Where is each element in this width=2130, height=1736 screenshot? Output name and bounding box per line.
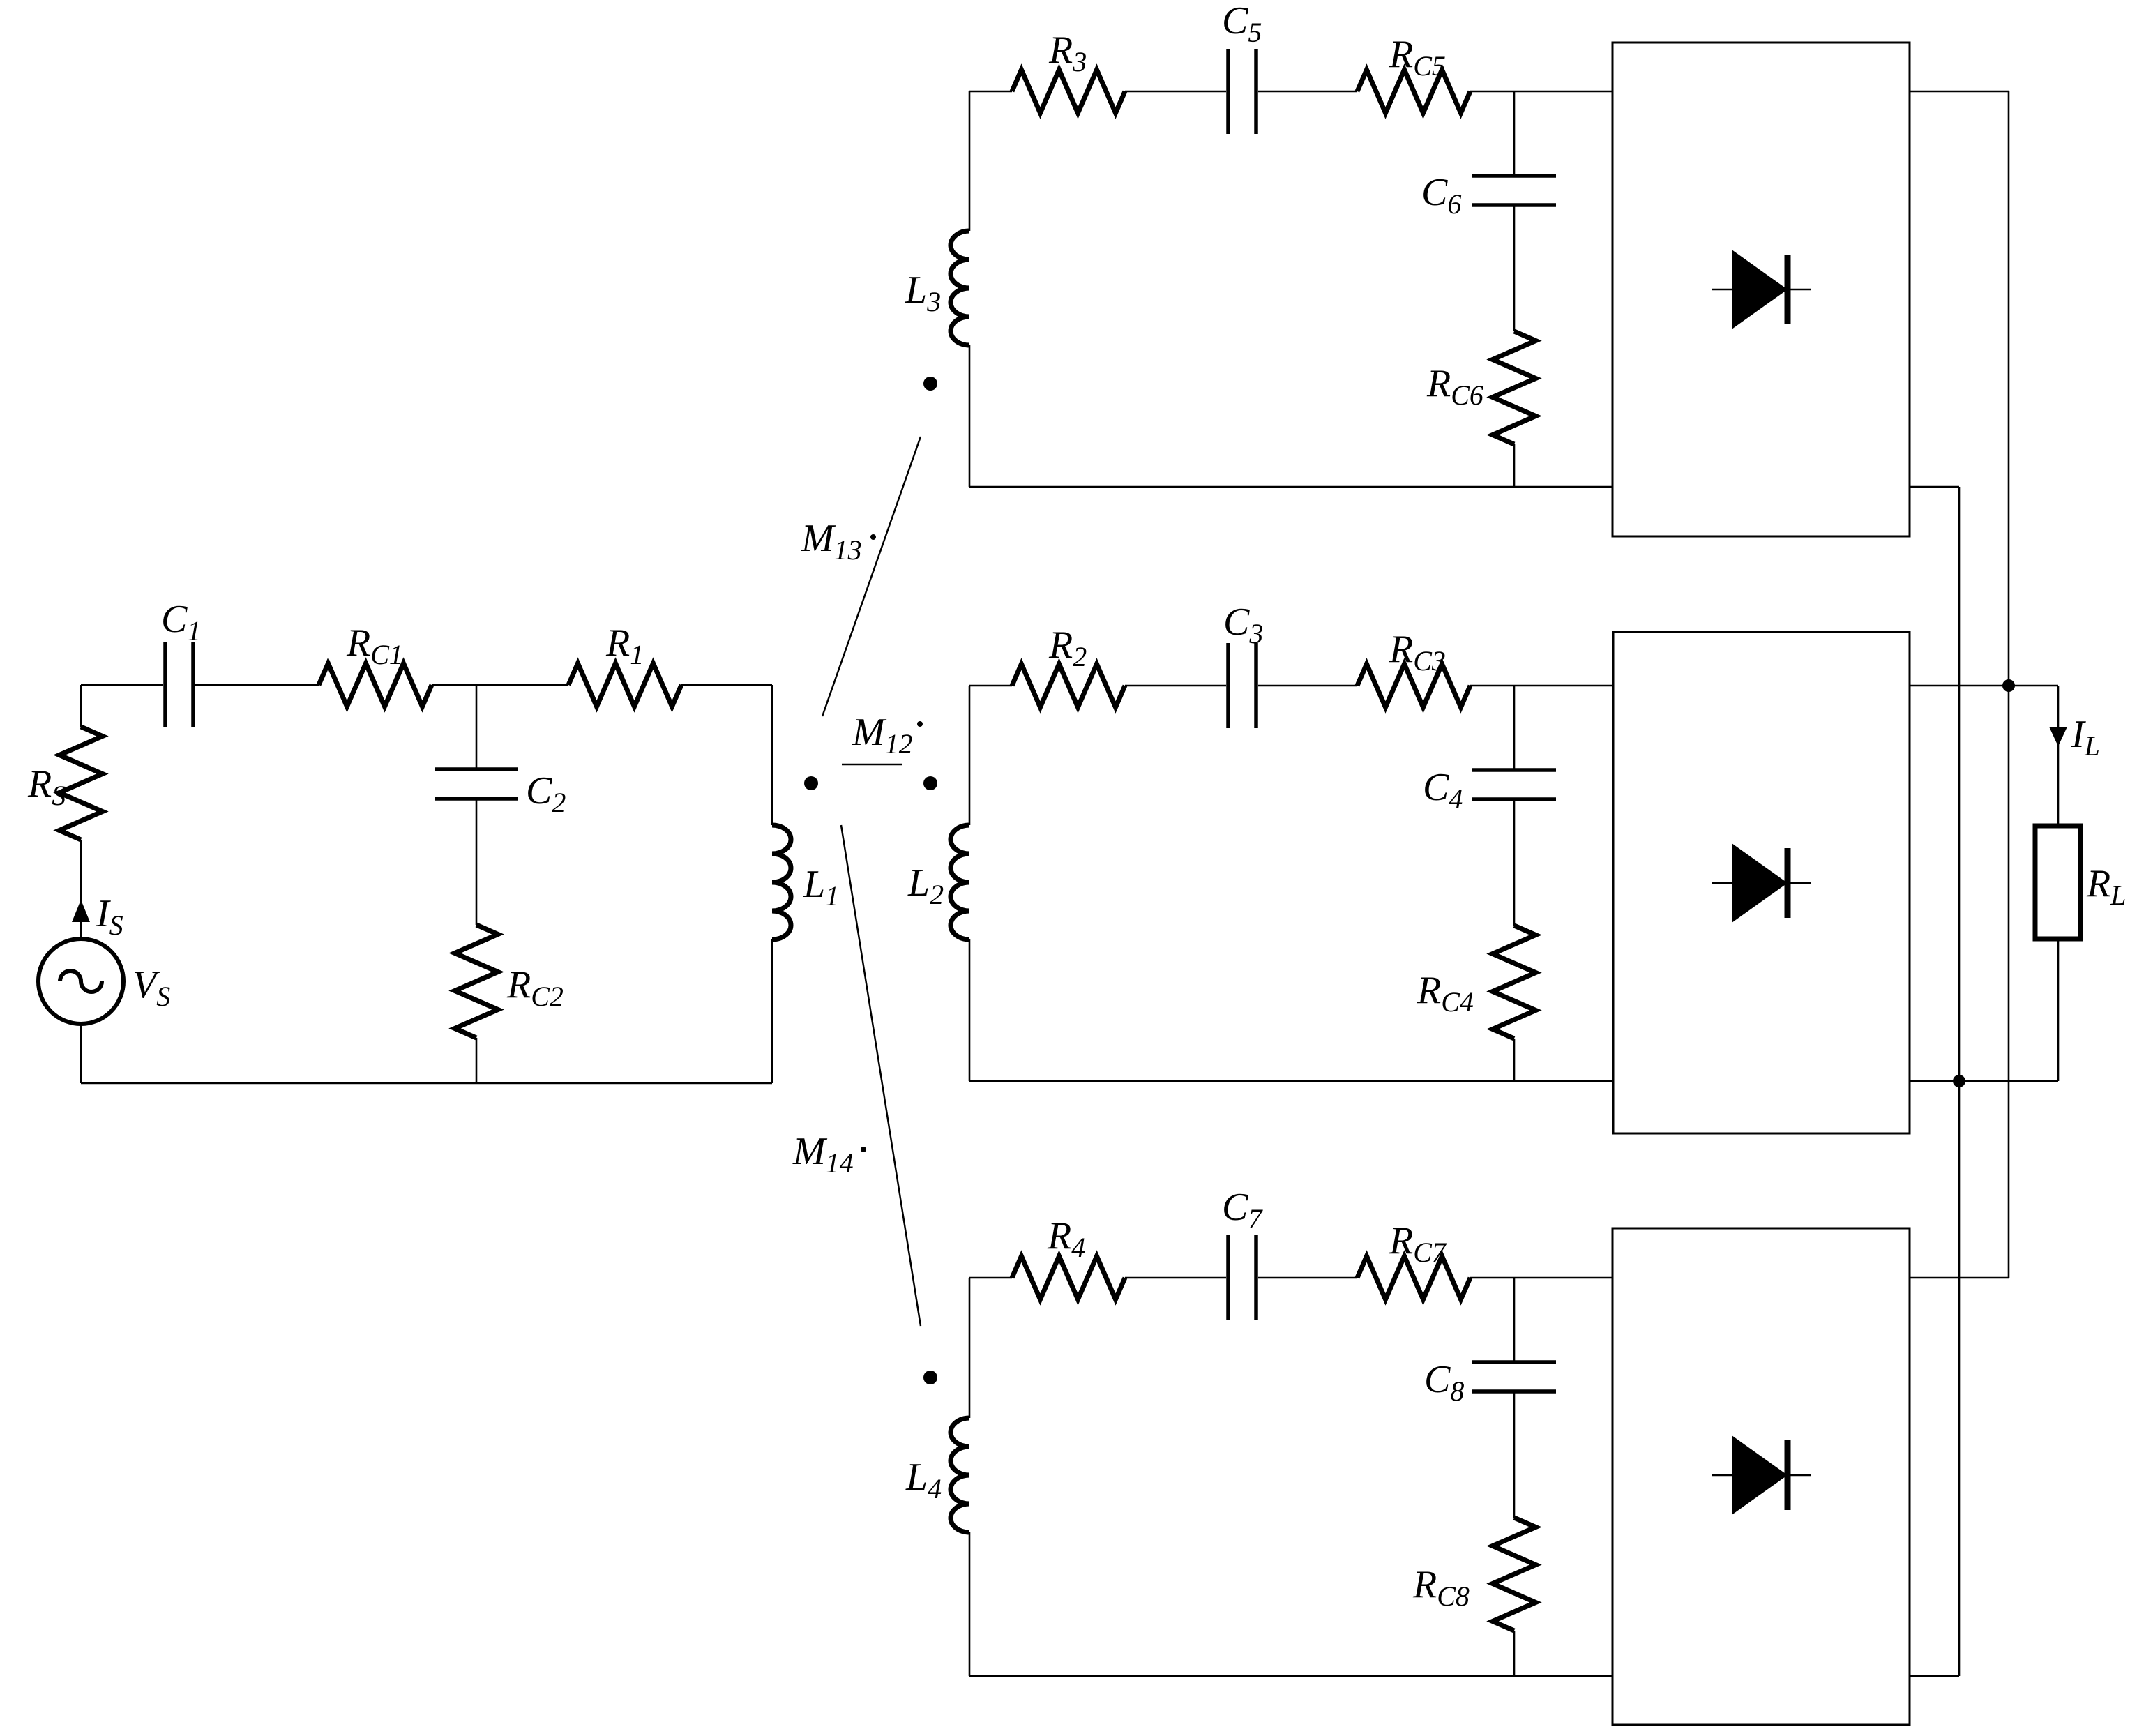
diode D3	[1712, 1435, 1811, 1515]
resistor R1	[568, 663, 681, 707]
svg-text:RL: RL	[2086, 862, 2126, 911]
resistor RC6	[1493, 331, 1536, 444]
svg-text:L2: L2	[907, 861, 944, 910]
svg-text:L1: L1	[803, 863, 839, 912]
wire C3 to RC3	[1258, 685, 1357, 687]
wire top rail to R2	[969, 685, 1012, 687]
wire RC7 to block	[1470, 1277, 1612, 1279]
wire top rail to R4	[969, 1277, 1012, 1279]
wire receiver3 bottom rail	[969, 486, 1612, 488]
svg-text:RC8: RC8	[1412, 1563, 1470, 1612]
M13 stray dot	[870, 534, 876, 540]
inductor L3	[951, 231, 969, 345]
wire C6 to RC6	[1513, 205, 1516, 331]
rectifier block 1	[1612, 43, 1910, 536]
svg-text:C3: C3	[1223, 601, 1263, 649]
wire C1 to RC1	[195, 684, 319, 686]
diode D2	[1712, 843, 1811, 923]
capacitor C4	[1472, 770, 1556, 799]
inductor L2	[951, 825, 969, 939]
wire top-left to C1	[81, 684, 163, 686]
svg-text:M14: M14	[792, 1130, 854, 1179]
resistor RC2	[455, 925, 498, 1038]
resistor R3	[1012, 70, 1125, 113]
wire C2 to RC2	[476, 799, 478, 925]
svg-text:RC5: RC5	[1389, 33, 1446, 82]
rectifier block 3	[1612, 1228, 1910, 1725]
coupling line M14	[841, 825, 921, 1326]
capacitor C3	[1228, 643, 1256, 728]
svg-text:M12: M12	[852, 711, 913, 760]
dot L1 polarity	[804, 776, 818, 790]
wire block1 minus output	[1910, 486, 1959, 488]
diode D1	[1712, 250, 1811, 329]
wire block3 minus output	[1910, 1675, 1959, 1677]
wire L2 left rail lower	[969, 939, 971, 1081]
wire receiver2 bottom rail	[969, 1080, 1613, 1082]
svg-text:C5: C5	[1222, 0, 1262, 48]
wire C6 branch upper	[1513, 91, 1516, 176]
inductor L4	[951, 1418, 969, 1532]
svg-text:RS: RS	[27, 762, 66, 811]
coupling line M13	[822, 437, 921, 716]
wire C8 to RC8	[1513, 1391, 1516, 1518]
wire RL bottom lead	[2057, 939, 2060, 1081]
resistor RC7	[1357, 1256, 1470, 1299]
wire L4 left rail lower	[969, 1532, 971, 1676]
capacitor C8	[1472, 1362, 1556, 1391]
dot L4 polarity	[923, 1371, 937, 1384]
wire right rail lower	[771, 939, 773, 1083]
svg-text:C6: C6	[1421, 171, 1461, 220]
wire C4 to RC4	[1513, 799, 1516, 926]
wire L3 left rail upper	[969, 91, 971, 231]
wire C7 to RC7	[1258, 1277, 1357, 1279]
wire RC6 to bottom rail	[1513, 444, 1516, 487]
svg-text:C7: C7	[1222, 1186, 1263, 1235]
wire block2 plus output	[1910, 685, 2058, 687]
svg-text:C1: C1	[161, 598, 201, 647]
svg-text:C2: C2	[526, 769, 566, 818]
junction node plus bus	[2002, 679, 2015, 692]
current arrow IL	[2049, 727, 2067, 746]
svg-text:C8: C8	[1424, 1358, 1464, 1407]
capacitor C5	[1228, 49, 1256, 134]
svg-text:R2: R2	[1048, 624, 1087, 672]
svg-text:R4: R4	[1047, 1214, 1085, 1263]
svg-text:IS: IS	[96, 892, 123, 941]
resistor RS	[59, 727, 103, 840]
wire block3 plus output	[1910, 1277, 2009, 1279]
wire RS to VS	[80, 840, 82, 939]
wire C8 branch upper	[1513, 1278, 1516, 1362]
wire R3 to C5	[1125, 91, 1226, 93]
capacitor C2	[435, 769, 518, 799]
svg-text:VS: VS	[133, 963, 170, 1012]
svg-text:RC3: RC3	[1389, 628, 1446, 677]
resistor RC8	[1493, 1518, 1536, 1631]
svg-text:R1: R1	[605, 621, 644, 670]
wire right rail upper	[771, 685, 773, 825]
wire L2 left rail upper	[969, 686, 971, 825]
M12 stray dot	[917, 721, 923, 727]
svg-text:C4: C4	[1423, 766, 1463, 815]
current arrow IS	[72, 900, 90, 922]
M14 stray dot	[861, 1147, 866, 1152]
M12 underline	[842, 764, 902, 766]
svg-text:M13: M13	[801, 517, 862, 566]
wire C4 branch upper	[1513, 686, 1516, 770]
wire block1 plus output	[1910, 91, 2009, 93]
svg-text:RC2: RC2	[506, 963, 564, 1012]
wire R2 to C3	[1125, 685, 1226, 687]
wire C2 branch upper	[476, 685, 478, 769]
wire top rail to R3	[969, 91, 1012, 93]
dot L2 polarity	[923, 776, 937, 790]
resistor R2	[1012, 664, 1125, 707]
wire plus bus	[2008, 91, 2010, 1278]
svg-text:RC6: RC6	[1426, 362, 1483, 411]
wire RC4 to bottom rail	[1513, 1039, 1516, 1081]
resistor RC1	[319, 663, 432, 707]
capacitor C1	[165, 642, 193, 727]
resistor RC4	[1493, 926, 1536, 1039]
load resistor RL	[2035, 826, 2080, 939]
wire L4 left rail upper	[969, 1278, 971, 1418]
wire RL top lead	[2057, 686, 2060, 826]
wire receiver4 bottom rail	[969, 1675, 1612, 1677]
wire RC8 to bottom rail	[1513, 1631, 1516, 1676]
resistor RC3	[1357, 664, 1470, 707]
inductor L1	[772, 825, 791, 939]
wire RC2 to bottom rail	[476, 1038, 478, 1083]
wire block2 minus output	[1910, 1080, 2058, 1082]
wire R4 to C7	[1125, 1277, 1226, 1279]
rectifier block 2	[1613, 632, 1910, 1133]
wire C5 to RC5	[1258, 91, 1357, 93]
wire R1 to right rail	[681, 684, 772, 686]
wire RC5 to block	[1470, 91, 1612, 93]
svg-text:L4: L4	[905, 1456, 942, 1504]
svg-text:IL: IL	[2071, 713, 2100, 762]
wire L3 left rail lower	[969, 345, 971, 487]
svg-text:RC1: RC1	[346, 621, 403, 670]
junction node minus bus	[1953, 1075, 1965, 1087]
resistor RC5	[1357, 70, 1470, 113]
wire minus bus	[1958, 487, 1961, 1676]
wire source bottom rail	[81, 1082, 772, 1085]
svg-text:R3: R3	[1048, 29, 1087, 77]
capacitor C7	[1228, 1235, 1256, 1320]
resistor R4	[1012, 1256, 1125, 1299]
wire RC1 to R1 (node C2 tap)	[432, 684, 568, 686]
svg-text:RC7: RC7	[1389, 1219, 1447, 1268]
wire VS to bottom rail	[80, 1024, 82, 1083]
svg-text:L3: L3	[905, 269, 941, 317]
voltage source VS	[38, 939, 123, 1024]
wire RC3 to block	[1470, 685, 1613, 687]
svg-text:RC4: RC4	[1417, 969, 1474, 1018]
wire source top-left vertical	[80, 685, 82, 727]
dot L3 polarity	[923, 377, 937, 391]
capacitor C6	[1472, 176, 1556, 205]
